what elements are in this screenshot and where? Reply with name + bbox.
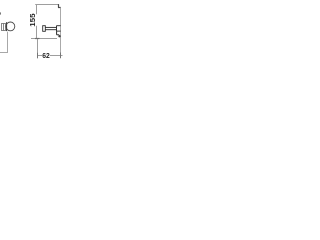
side view: rod top line xyxy=(46,26,57,28)
left view: flange chord bar xyxy=(6,22,7,31)
extension jog horizontal xyxy=(58,7,61,9)
dimension 155: vertical dimension line (upper) xyxy=(36,5,38,15)
side view: wall plate top xyxy=(57,25,61,27)
extension jog vertical xyxy=(58,4,60,7)
side view: wall plate bottom xyxy=(57,30,61,32)
dimension 155: vertical dimension line (middle) xyxy=(36,26,38,39)
dimension 62: left tick xyxy=(37,53,39,58)
left view: horizontal line to left edge xyxy=(0,52,8,54)
side view: wall plate front face xyxy=(56,26,58,32)
side view: lower bracket knob xyxy=(58,35,60,37)
side view: lower bracket vertical xyxy=(56,31,58,35)
tick at 155 lower end xyxy=(35,38,40,40)
left view: flange circle xyxy=(6,22,15,31)
dimension 155: vertical line (lower, to 62 dim) xyxy=(37,39,39,59)
left view: knob body rectangle xyxy=(2,24,6,31)
dimension 62: right tick xyxy=(60,53,62,59)
side view: knob end xyxy=(43,26,46,32)
dimension 155: top extension line xyxy=(35,4,58,6)
dimension 62: line right segment xyxy=(50,55,63,57)
edge dash at left border xyxy=(0,12,2,14)
svg-text:62: 62 xyxy=(42,51,50,60)
side view: lower bracket horizontal xyxy=(57,34,60,36)
dimension 155: bottom extension line xyxy=(31,38,57,40)
wall line xyxy=(60,8,62,53)
svg-text:155: 155 xyxy=(30,13,37,27)
side view: rod bottom line xyxy=(46,29,57,31)
dimension 62: line left segment xyxy=(38,55,43,57)
left view: centre line descending xyxy=(7,32,9,53)
